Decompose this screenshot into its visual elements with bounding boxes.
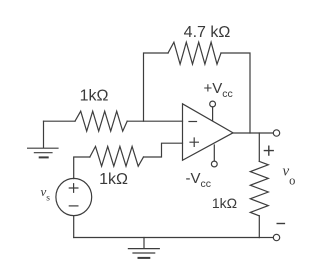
svg-text:vs: vs [41, 184, 51, 203]
svg-text:-Vcc: -Vcc [186, 170, 212, 190]
svg-text:1kΩ: 1kΩ [80, 88, 109, 105]
svg-text:vo: vo [283, 164, 296, 188]
svg-text:1kΩ: 1kΩ [212, 195, 237, 211]
svg-text:4.7 kΩ: 4.7 kΩ [184, 24, 231, 41]
svg-text:1kΩ: 1kΩ [99, 171, 128, 188]
svg-text:+Vcc: +Vcc [204, 80, 233, 100]
